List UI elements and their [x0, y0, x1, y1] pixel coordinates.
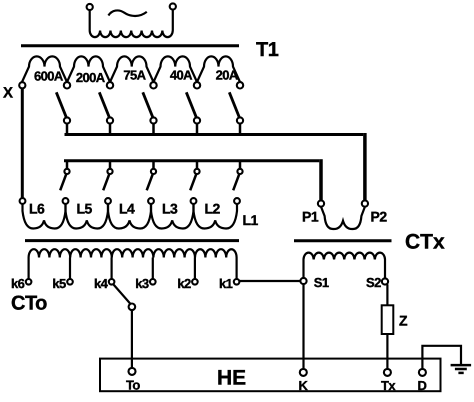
wire bus2 stub 2: [109, 162, 112, 169]
wire S1 to K: [302, 284, 304, 368]
wire bus2 stub 1: [66, 162, 69, 169]
wire bus2 stub 5: [239, 162, 242, 169]
winding CTx primary: [321, 207, 365, 229]
wire CTx sec left drop: [302, 260, 304, 279]
wire k2 drop: [194, 258, 196, 280]
winding CTx secondary: [304, 253, 386, 260]
terminal P2: [362, 201, 368, 207]
switch S4b pivot: [194, 169, 199, 174]
bus wire 2: [64, 159, 319, 162]
switch S4a blade: [186, 92, 196, 118]
switch S4b blade: [190, 174, 196, 190]
tap terminal 1: [64, 82, 70, 88]
switch S3b blade: [147, 174, 153, 190]
wire S4a to bus1: [196, 124, 199, 136]
switch k4 blade: [114, 285, 131, 304]
wire k1 drop: [236, 258, 238, 280]
terminal k2: [192, 279, 198, 285]
switch S5b blade: [233, 174, 239, 190]
terminal S1: [300, 278, 306, 284]
svg-text:L2: L2: [205, 201, 221, 217]
wire S5a to bus1: [239, 124, 242, 136]
wire Z to Tx: [386, 334, 388, 369]
bus wire 1: [65, 133, 364, 136]
svg-text:D: D: [418, 378, 427, 393]
svg-text:k5: k5: [52, 276, 66, 291]
switch S5a contact: [237, 117, 243, 123]
winding T1 secondary section 3: [110, 56, 154, 82]
tap terminal 4: [194, 82, 200, 88]
svg-text:HE: HE: [217, 367, 246, 390]
svg-text:Tx: Tx: [381, 378, 396, 393]
svg-text:k4: k4: [94, 276, 109, 291]
terminal To: [129, 368, 136, 375]
tap terminal 2: [107, 82, 113, 88]
svg-text:T1: T1: [256, 39, 279, 61]
wire k1 to S1: [239, 280, 300, 282]
svg-text:k2: k2: [177, 276, 191, 291]
switch S5b pivot: [237, 169, 242, 174]
core T1: [21, 44, 239, 47]
winding T1 primary: [90, 31, 173, 38]
winding T1 secondary section 2: [67, 56, 110, 82]
terminal X: [19, 82, 25, 88]
terminal k4: [109, 279, 115, 285]
svg-text:L3: L3: [162, 201, 178, 217]
terminal of T1 primary (right): [170, 3, 176, 9]
switch S1a contact: [64, 117, 70, 123]
switch S3a blade: [143, 92, 153, 118]
wire k3 drop: [152, 258, 154, 280]
svg-text:Z: Z: [399, 313, 408, 329]
terminal of T1 primary (left): [87, 4, 93, 10]
wire k5 drop: [69, 258, 71, 280]
svg-text:CTo: CTo: [11, 293, 47, 315]
tap terminal 3: [150, 82, 156, 88]
winding T1 secondary section 5: [197, 56, 240, 82]
winding T1 secondary section 4: [154, 56, 198, 82]
switch S3a contact: [150, 117, 156, 123]
svg-text:75A: 75A: [123, 68, 146, 83]
winding CTo primary section 5: [194, 204, 238, 229]
switch k4 contact: [129, 304, 136, 311]
box HE: [100, 359, 441, 392]
winding CTo primary section 1: [23, 204, 66, 229]
core CTx: [294, 239, 392, 242]
svg-text:k1: k1: [219, 276, 233, 291]
wire bus2 stub 4: [196, 162, 199, 169]
svg-text:40A: 40A: [170, 67, 193, 82]
wire to To: [131, 310, 133, 368]
wire bus1 to P2: [363, 133, 367, 201]
svg-text:K: K: [299, 378, 309, 393]
terminal L6: [20, 198, 26, 204]
terminal P1: [318, 201, 324, 207]
terminal L4: [105, 198, 111, 204]
svg-text:L4: L4: [119, 201, 135, 217]
svg-text:P1: P1: [302, 209, 319, 225]
svg-text:L6: L6: [29, 201, 45, 217]
terminal k5: [67, 279, 73, 285]
switch S2b blade: [103, 174, 109, 190]
wire bus2 to P1: [319, 159, 323, 201]
winding CTo primary section 3: [108, 204, 151, 229]
svg-text:k3: k3: [135, 276, 149, 291]
wire S1a to bus1: [66, 124, 69, 136]
tap terminal 5: [237, 82, 243, 88]
terminal L2: [191, 198, 197, 204]
terminal L5: [63, 198, 69, 204]
svg-text:S2: S2: [366, 275, 381, 290]
svg-text:k6: k6: [11, 276, 25, 291]
terminal S2: [382, 278, 388, 284]
wire X to L6: [21, 88, 24, 198]
terminal L3: [148, 198, 154, 204]
wire k4 drop: [110, 258, 112, 280]
svg-text:L5: L5: [77, 201, 93, 217]
switch S2a blade: [99, 92, 109, 118]
switch S2a contact: [107, 117, 113, 123]
switch S1a blade: [56, 92, 66, 118]
wire k6 drop: [28, 258, 30, 280]
impedance Z: [382, 305, 394, 334]
core CTo: [25, 239, 239, 242]
wire primary right lead: [172, 10, 174, 31]
switch S3b pivot: [151, 169, 156, 174]
switch S1b blade: [60, 174, 66, 190]
svg-text:L1: L1: [243, 212, 259, 228]
terminal Tx: [384, 369, 391, 376]
wire S3a to bus1: [152, 124, 155, 136]
terminal k6: [26, 279, 32, 285]
switch S1b pivot: [64, 169, 69, 174]
wire bus2 stub 3: [152, 162, 155, 169]
wire S2a to bus1: [109, 124, 112, 136]
wire S2 to Z: [386, 284, 388, 305]
terminal D: [419, 369, 426, 376]
svg-text:X: X: [3, 85, 13, 102]
svg-text:To: To: [126, 377, 140, 392]
winding CTo primary section 4: [151, 204, 194, 229]
switch S5a blade: [229, 92, 239, 118]
winding T1 secondary section 1: [22, 56, 67, 82]
svg-text:200A: 200A: [76, 70, 106, 85]
wire CTx sec right drop: [384, 260, 386, 279]
switch S4a contact: [194, 117, 200, 123]
terminal k3: [150, 279, 156, 285]
wire primary left lead: [89, 10, 91, 30]
winding CTo primary section 2: [66, 204, 109, 229]
AC source squiggle: [108, 10, 146, 16]
svg-text:20A: 20A: [216, 67, 239, 82]
winding CTo secondary: [29, 249, 237, 257]
ground: [451, 364, 472, 367]
terminal k1: [234, 279, 240, 285]
svg-text:P2: P2: [371, 209, 388, 225]
terminal L1: [234, 198, 240, 204]
wire D to ground: [422, 346, 461, 369]
svg-text:CTx: CTx: [405, 230, 445, 253]
svg-text:600A: 600A: [34, 68, 64, 83]
terminal K: [300, 369, 307, 376]
svg-text:S1: S1: [314, 275, 329, 290]
switch S2b pivot: [107, 169, 112, 174]
